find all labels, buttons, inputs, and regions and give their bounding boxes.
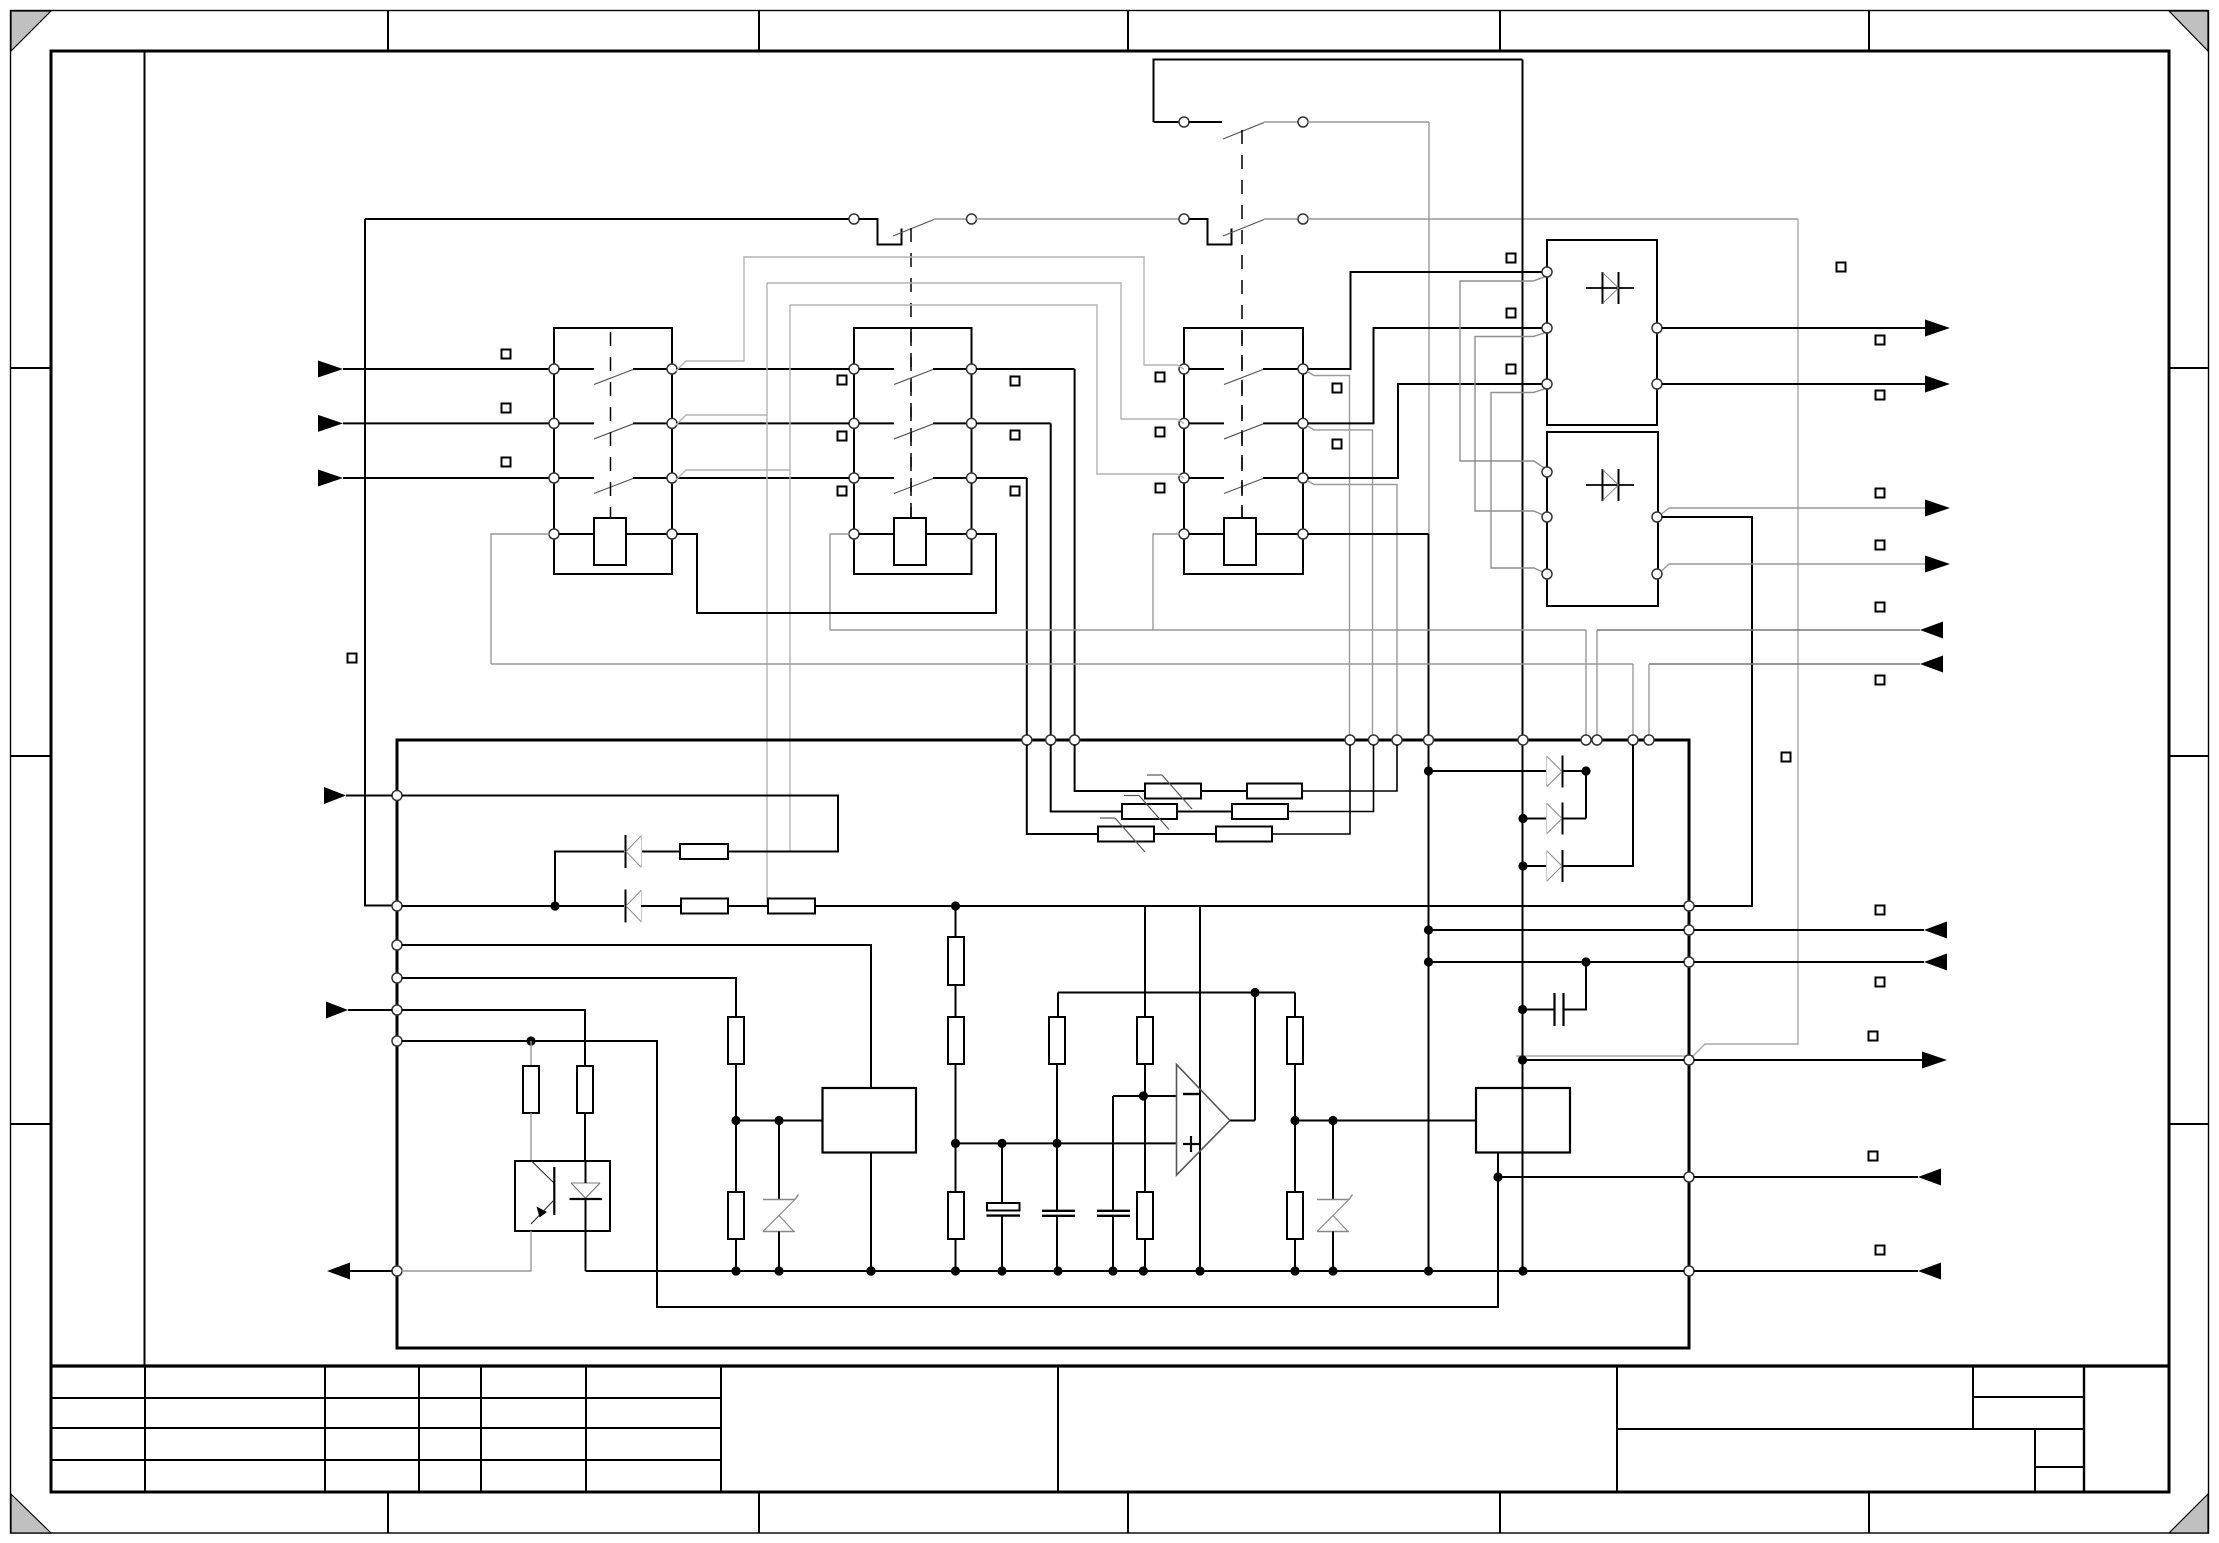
junction	[951, 1139, 960, 1148]
wire	[343, 422, 550, 424]
contactor K3 coil left terminal	[1179, 529, 1189, 539]
wire	[955, 906, 957, 937]
output connector arrow y=564	[1925, 556, 1950, 573]
rectifier module U2 box	[1547, 432, 1658, 606]
zone tick top x=759	[758, 11, 760, 51]
wire	[955, 1064, 957, 1192]
switch blade S3	[1223, 123, 1264, 140]
wire minus input	[1113, 1095, 1177, 1097]
wire opamp out riser	[1254, 993, 1256, 1121]
terminal marker square (506,462)	[502, 458, 511, 467]
resistor R11	[680, 844, 728, 859]
mech link dashed contactor2	[910, 228, 912, 518]
contactor K2 pole 3 left terminal	[849, 473, 859, 483]
wire	[1429, 770, 1547, 772]
terminal marker square (1511,369)	[1507, 365, 1516, 374]
terminal marker square (1786,757)	[1782, 753, 1791, 762]
coil K1-K2 black link	[677, 534, 997, 613]
wire	[343, 477, 550, 479]
wire	[1001, 1143, 1003, 1203]
terminal marker square (1880,545)	[1876, 541, 1885, 550]
wire grey drop	[1307, 372, 1349, 736]
grey rail H2	[491, 663, 1633, 665]
wire	[1112, 1216, 1114, 1271]
terminal marker square (1873,1036)	[1869, 1032, 1878, 1041]
zener VD2	[1332, 1121, 1334, 1200]
terminal marker square (1880,982)	[1876, 978, 1885, 987]
wire	[1189, 368, 1225, 370]
terminal marker square (1880,1250)	[1876, 1246, 1885, 1255]
resistor R58	[1287, 1192, 1303, 1239]
rail junction	[774, 1266, 783, 1275]
zone tick right y=1124	[2169, 1123, 2209, 1125]
contactor K1 linkage dashes	[610, 332, 612, 518]
wire grey drop x=1429	[1428, 122, 1430, 534]
wire black down	[1662, 517, 1753, 906]
wire	[559, 422, 595, 424]
contactor K1 pole 2 right terminal	[667, 418, 677, 428]
junction	[526, 1036, 535, 1045]
terminal marker square (1880,395)	[1876, 391, 1885, 400]
board top terminal x=1586	[1581, 735, 1591, 745]
mech link dashed contactor3	[1241, 130, 1243, 518]
board top terminal x=1074.6	[1070, 735, 1080, 745]
coil K1 grey return	[491, 534, 550, 664]
board top terminal x=1523	[1518, 735, 1528, 745]
zone tick top x=388	[387, 11, 389, 51]
wire drop x=1050.7	[1050, 423, 1052, 735]
wire K1-K2 y=478	[677, 477, 850, 479]
resistor R24	[523, 1066, 539, 1113]
contactor K3 pole 2 left terminal	[1179, 418, 1189, 428]
wire output	[1662, 383, 1926, 385]
revision table	[144, 1366, 146, 1492]
terminal marker square (842,436)	[838, 432, 847, 441]
board top terminal x=1350	[1345, 735, 1355, 745]
zone tick top x=1500	[1499, 11, 1501, 51]
zone tick bottom x=1128	[1127, 1492, 1129, 1533]
grey rail H1	[830, 629, 1586, 631]
wire	[1288, 745, 1374, 812]
board left terminal y=1010	[392, 1005, 402, 1015]
rectifier module U1 box	[1547, 240, 1657, 425]
junction	[997, 1139, 1006, 1148]
wire row 795	[402, 796, 839, 852]
wire to arrow	[1694, 961, 1925, 963]
terminal marker square (1880,680)	[1876, 676, 1885, 685]
rail junction	[997, 1266, 1006, 1275]
wire feedback top	[1058, 992, 1295, 994]
wire	[1112, 1096, 1114, 1211]
board right terminal y=962	[1684, 957, 1694, 967]
wire output	[1662, 327, 1926, 329]
board left terminal y=1271	[392, 1266, 402, 1276]
switch blade S1	[893, 220, 934, 237]
contactor K2 frame	[854, 328, 972, 574]
diode D12	[625, 890, 627, 923]
wire grey drop	[1307, 481, 1397, 736]
terminal circle S1 right	[967, 214, 977, 224]
terminal marker square (1160,432)	[1156, 428, 1165, 437]
resistor R55	[1137, 1017, 1153, 1064]
contactor K3 pole 3 blade	[1224, 479, 1263, 494]
rectifier U2 output terminal 1	[1652, 512, 1662, 522]
contactor K3 frame	[1184, 328, 1303, 574]
corner triangle bottom-left	[11, 1494, 51, 1533]
wire	[559, 533, 595, 535]
terminal marker square (1841,267)	[1837, 263, 1846, 272]
diode D11	[625, 835, 627, 868]
wire	[728, 905, 768, 907]
output connector arrow y=328	[1925, 320, 1950, 337]
wire	[1562, 818, 1586, 820]
rectifier U1 output terminal y=384	[1652, 379, 1662, 389]
wire row 978	[402, 978, 737, 1017]
contactor K1 coil	[594, 518, 626, 565]
resistor R12	[681, 899, 728, 914]
contactor K3 pole 1 blade	[1224, 370, 1263, 385]
wire	[1154, 833, 1216, 835]
terminal marker square (1337,444)	[1333, 440, 1342, 449]
wire K3 out riser	[1308, 384, 1543, 478]
resistor R56	[1137, 1192, 1153, 1239]
contactor K2 pole 1 left terminal	[849, 364, 859, 374]
contactor K3 pole 1 right terminal	[1298, 364, 1308, 374]
terminal circle S1 left	[849, 214, 859, 224]
wire grey collector	[530, 1041, 532, 1066]
wire	[1001, 1216, 1003, 1271]
terminal marker square (842,491)	[838, 487, 847, 496]
output connector arrow y=384	[1925, 376, 1950, 393]
wire LED down to rail	[585, 1231, 587, 1271]
contactor K2 pole 3 right terminal	[967, 473, 977, 483]
wire	[1057, 993, 1059, 1018]
capacitor C4	[1553, 993, 1555, 1026]
zone tick bottom x=1869	[1868, 1492, 1870, 1533]
zone tick right y=756	[2169, 755, 2209, 757]
board top terminal x=1649	[1644, 735, 1654, 745]
grey route D3	[1491, 389, 1547, 575]
wire row 962	[1429, 961, 1685, 963]
contactor K3 pole 2 right terminal	[1298, 418, 1308, 428]
wire drop x=1026.8	[1026, 478, 1028, 736]
resistor R21	[728, 1017, 744, 1064]
junction	[1493, 1172, 1502, 1181]
wire	[955, 985, 957, 1017]
wire row 906	[402, 905, 625, 907]
board left terminal y=795.5	[392, 791, 402, 801]
diode D22	[1562, 803, 1564, 835]
rail junction	[866, 1266, 875, 1275]
wire	[933, 477, 967, 479]
zone tick bottom x=759	[758, 1492, 760, 1533]
wire drop x=1074.6	[1074, 369, 1076, 736]
wire notch S1	[859, 219, 902, 245]
input connector arrow y=795	[324, 787, 346, 804]
wire	[1562, 745, 1633, 867]
board right terminal y=1177	[1684, 1172, 1694, 1182]
terminal marker square (842,380)	[838, 376, 847, 385]
board top terminal x=1428.5	[1424, 735, 1434, 745]
contactor K3 pole 1 left terminal	[1179, 364, 1189, 374]
adjustable resistor R32	[1122, 804, 1177, 819]
wire grey drop	[1307, 426, 1372, 736]
zone tick top x=1128	[1127, 11, 1129, 51]
contactor K3 coil right terminal	[1298, 529, 1308, 539]
rectifier U2 input terminal y=517	[1542, 512, 1552, 522]
resistor R23	[577, 1066, 593, 1113]
grey rail H2b to arrow	[1649, 663, 1920, 665]
junction	[1424, 957, 1433, 966]
board left terminal y=945	[392, 940, 402, 950]
contactor K3 linkage dashes	[1241, 332, 1243, 518]
terminal marker square (1160,488)	[1156, 484, 1165, 493]
wire row 1177	[1498, 1176, 1685, 1178]
capacitor C4 branch	[1564, 962, 1587, 1010]
switch blade S2	[1223, 220, 1264, 237]
contactor K1 coil right terminal	[667, 529, 677, 539]
contactor K2 pole 2 left terminal	[849, 418, 859, 428]
contactor K3 pole 3 left terminal	[1179, 473, 1189, 483]
wire	[1264, 121, 1299, 123]
grey drop	[1596, 630, 1598, 736]
rail junction	[1290, 1266, 1299, 1275]
resistor R41	[1247, 784, 1302, 799]
grey route D2	[1475, 333, 1547, 518]
wire notch S2	[1189, 219, 1232, 245]
wire to arrow	[1694, 1059, 1923, 1061]
diode D21	[1562, 756, 1564, 788]
diode D23	[1562, 850, 1564, 882]
contactor K2 coil right terminal	[967, 529, 977, 539]
contactor K1 pole 2 left terminal	[549, 418, 559, 428]
junction	[1424, 766, 1433, 775]
title block right section	[1616, 1366, 1618, 1492]
board top terminal x=1026.8	[1022, 735, 1032, 745]
junction	[1250, 988, 1259, 997]
junction	[550, 901, 559, 910]
wire	[815, 905, 1685, 907]
IC box U4	[823, 1088, 917, 1153]
op-amp U5	[1177, 1065, 1231, 1176]
wire	[1154, 121, 1180, 123]
junction	[951, 901, 960, 910]
wire feed row 1	[1075, 745, 1145, 792]
rectifier U1 diode symbol	[1586, 287, 1634, 289]
wire K3 out riser	[1308, 272, 1543, 369]
wire	[1056, 1064, 1058, 1211]
input connector arrow y=369	[318, 361, 343, 378]
optocoupler transistor	[532, 1161, 555, 1183]
wire feed row 3	[1027, 745, 1098, 835]
wire	[1523, 818, 1546, 820]
wire	[633, 422, 668, 424]
contactor K1 pole 1 blade	[594, 370, 633, 385]
wire K2 out y=423.4	[976, 422, 1051, 424]
title block top thick line	[51, 1364, 2169, 1367]
capacitor C2	[1042, 1210, 1075, 1212]
rectifier U1 output terminal y=328	[1652, 323, 1662, 333]
board left terminal y=978	[392, 973, 402, 983]
input connector arrow y=1010	[326, 1002, 348, 1019]
board right terminal y=1271	[1684, 1266, 1694, 1276]
junction	[1139, 1091, 1148, 1100]
wire	[736, 1120, 822, 1122]
contactor K1 frame	[554, 328, 672, 574]
resistor R43	[1216, 827, 1272, 842]
wire grey to arrow	[1662, 564, 1926, 571]
connector arrow left y=664	[1920, 656, 1943, 673]
wire	[1294, 1121, 1296, 1193]
board left terminal y=1041	[392, 1036, 402, 1046]
connector arrow left y=1271	[1918, 1263, 1941, 1280]
wire	[1263, 368, 1299, 370]
grey route L2	[676, 415, 767, 425]
wire	[1256, 533, 1299, 535]
contactor K2 pole 1 right terminal	[967, 364, 977, 374]
wire	[1585, 771, 1587, 819]
rectifier U1 input terminal y=272	[1542, 267, 1552, 277]
terminal circle S2 left	[1179, 214, 1189, 224]
resistor R57	[1287, 1017, 1303, 1064]
wire	[859, 368, 895, 370]
wire grey to arrow	[1662, 508, 1926, 514]
wire opamp output	[1230, 1120, 1255, 1122]
wire	[1189, 422, 1225, 424]
corner triangle bottom-right	[2169, 1494, 2208, 1533]
terminal marker square (1511,313)	[1507, 309, 1516, 318]
grey drop	[1585, 630, 1587, 736]
wire	[1272, 745, 1350, 835]
contactor K3 coil	[1224, 518, 1256, 565]
optocoupler U3 box	[515, 1161, 610, 1231]
junction	[1290, 1116, 1299, 1125]
wire	[1189, 121, 1223, 123]
rectifier U2 input terminal y=472	[1542, 467, 1552, 477]
zone tick right y=368	[2169, 367, 2209, 369]
terminal marker square (1880,340)	[1876, 336, 1885, 345]
wire	[1056, 1216, 1058, 1271]
adjust slash R31	[1147, 774, 1162, 776]
junction	[1518, 1055, 1527, 1064]
coil K3 black link	[1308, 533, 1429, 535]
terminal marker square (1873,1156)	[1869, 1152, 1878, 1161]
wire	[1263, 422, 1299, 424]
rectifier U1 input terminal y=328	[1542, 323, 1552, 333]
zone tick bottom x=1500	[1499, 1492, 1501, 1533]
resistor R54	[1049, 1017, 1065, 1064]
wire	[343, 368, 550, 370]
board right terminal y=930	[1684, 925, 1694, 935]
rail junction	[1195, 1266, 1204, 1275]
contactor K2 pole 3 blade	[894, 479, 933, 494]
junction	[731, 1266, 740, 1275]
wire	[1144, 906, 1146, 1017]
grey rail H1b to arrow	[1597, 629, 1920, 631]
wire	[1263, 477, 1299, 479]
grey route D1	[1460, 277, 1547, 471]
adjust slash R32	[1124, 795, 1139, 797]
rail wire	[586, 1270, 1685, 1272]
contactor K1 pole 1 right terminal	[667, 364, 677, 374]
wire K1-K2 y=423.4	[677, 422, 850, 424]
adjustable resistor R31	[1145, 784, 1201, 799]
wire row 1057	[1523, 1059, 1685, 1061]
wire	[1177, 811, 1232, 813]
board top terminal x=1050.7	[1046, 735, 1056, 745]
corner triangle top-right	[2169, 11, 2208, 51]
rail junction	[1328, 1266, 1337, 1275]
wire top feeder	[365, 218, 850, 220]
board right terminal y=906	[1684, 901, 1694, 911]
wire	[735, 1064, 737, 1192]
adjust slash R33	[1100, 817, 1115, 819]
wire	[1562, 770, 1586, 772]
wire grey	[1308, 121, 1430, 123]
wire feed row 2	[1051, 745, 1122, 812]
wire grey to S2	[976, 218, 1180, 220]
connector arrow left y=1177	[1918, 1169, 1941, 1186]
wire K3 out riser	[1308, 328, 1543, 423]
board left terminal y=906	[392, 901, 402, 911]
long vertical x=1522.5	[1522, 60, 1524, 1272]
connector arrow right y=1057	[1922, 1052, 1947, 1069]
terminal marker square (1160,377)	[1156, 373, 1165, 382]
terminal circle S3 left	[1179, 117, 1189, 127]
wire grey long drop x=1798	[1516, 219, 1798, 1056]
wire	[1523, 865, 1546, 867]
wire to arrow	[1694, 1176, 1919, 1178]
terminal marker square (1880,607)	[1876, 603, 1885, 612]
zone tick left y=1124	[11, 1123, 51, 1125]
terminal marker square (506,354)	[502, 350, 511, 359]
wire K2 out y=369	[976, 368, 1075, 370]
wire	[559, 477, 595, 479]
resistor R22	[728, 1192, 744, 1239]
wire grey emitter	[402, 1231, 532, 1271]
wire long x=1200	[1199, 906, 1201, 1271]
grey drop	[1632, 664, 1634, 736]
terminal circle S3 right	[1298, 117, 1308, 127]
junction	[731, 1116, 740, 1125]
wire	[1523, 1009, 1555, 1011]
junction	[1581, 766, 1590, 775]
grey drop	[1648, 664, 1650, 736]
wire K2 out y=478	[976, 477, 1027, 479]
wire	[555, 852, 624, 907]
wire grey	[530, 1113, 532, 1161]
wire	[584, 1113, 586, 1161]
wire	[1189, 477, 1225, 479]
terminal circle S2 right	[1298, 214, 1308, 224]
output connector arrow y=508	[1925, 500, 1950, 517]
resistor R51	[948, 937, 964, 985]
wire to arrow	[1694, 1270, 1919, 1272]
rail junction	[1424, 1266, 1433, 1275]
zone tick bottom x=388	[387, 1492, 389, 1533]
wire	[1189, 533, 1225, 535]
wire	[1144, 1239, 1146, 1271]
board top terminal x=1597	[1592, 735, 1602, 745]
wire	[955, 1239, 957, 1271]
contactor K1 pole 3 blade	[594, 479, 633, 494]
contactor K1 pole 2 blade	[594, 424, 633, 439]
junction	[774, 1116, 783, 1125]
zone tick top x=1869	[1868, 11, 1870, 51]
wire	[559, 368, 595, 370]
wire to arrow	[1694, 929, 1925, 931]
resistor R53	[948, 1192, 964, 1239]
